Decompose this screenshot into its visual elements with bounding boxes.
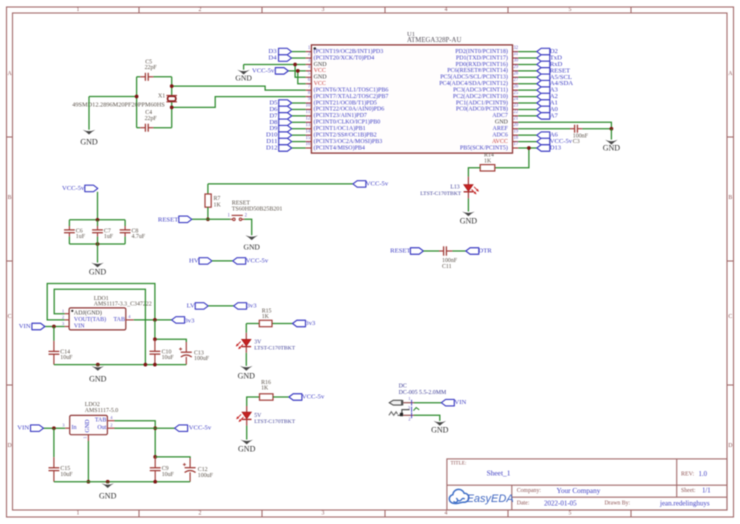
svg-text:PC6(RESET#/PCINT14): PC6(RESET#/PCINT14) — [447, 67, 508, 74]
svg-text:VIN: VIN — [19, 323, 31, 330]
svg-text:(PCINT4/MISO)PB4: (PCINT4/MISO)PB4 — [314, 144, 365, 151]
U1 pin 30 PD0(RXD/PCINT16) stub — [456, 59, 519, 68]
capacitor C11 leads — [439, 250, 444, 252]
svg-text:X1: X1 — [158, 94, 165, 100]
svg-text:VIN: VIN — [17, 425, 29, 432]
capacitor C12 polarized — [183, 463, 196, 473]
wire cap top rail — [69, 219, 125, 221]
svg-text:VCC-5v: VCC-5v — [366, 180, 389, 187]
wire bottom rail to GND — [97, 244, 99, 263]
wire R15 to 3v3 flag — [272, 323, 293, 325]
net port LV — [195, 303, 208, 310]
svg-text:PC4(ADC4/SDA/PCINT12): PC4(ADC4/SDA/PCINT12) — [439, 80, 508, 87]
LED 3V bottom lead — [245, 347, 247, 353]
svg-text:HV: HV — [189, 257, 199, 264]
svg-text:22pF: 22pF — [145, 65, 158, 71]
svg-text:REV:: REV: — [681, 471, 695, 477]
resistor R15 — [259, 320, 272, 326]
svg-text:VCC-5v: VCC-5v — [252, 67, 275, 74]
DC jack pin 1 lead — [403, 402, 414, 404]
net port TxD — [537, 55, 550, 62]
ground below C6-C8 — [89, 263, 107, 277]
U1 pin 6 VCC stub — [306, 78, 326, 87]
svg-text:RESET: RESET — [390, 248, 410, 255]
wire branch to C12 — [155, 457, 190, 458]
wire VIN flag to LDO2 — [44, 427, 66, 429]
junction top rail C7 — [96, 218, 100, 222]
svg-text:GND: GND — [431, 425, 449, 434]
svg-text:27: 27 — [513, 78, 518, 83]
junction D13 to R14 — [527, 146, 531, 150]
svg-text:28: 28 — [513, 72, 518, 77]
DC jack switch contact elbow — [402, 405, 412, 413]
svg-text:B: B — [8, 195, 12, 201]
capacitor C14 — [49, 351, 60, 354]
svg-text:Drawn By:: Drawn By: — [605, 501, 631, 507]
capacitor C4 leads — [140, 127, 145, 129]
net port D5 — [279, 100, 292, 107]
svg-text:12: 12 — [306, 117, 311, 122]
wire VOUT over-the-top loop to TAB net — [47, 284, 155, 320]
net port A3 — [537, 87, 550, 94]
ground LDO1 rail — [89, 366, 107, 383]
wire crystal top rail — [137, 76, 141, 78]
svg-text:DC: DC — [399, 384, 407, 390]
net port VCC-5v beside HV — [233, 258, 246, 265]
svg-text:(PCINT21/OC0B/T1)PD5: (PCINT21/OC0B/T1)PD5 — [314, 99, 377, 106]
junction rail ADJ loop — [144, 363, 148, 367]
capacitor C14 leads — [53, 341, 55, 352]
svg-text:ATMEGA328P-AU: ATMEGA328P-AU — [407, 37, 461, 44]
wire VIN down to C15 — [53, 428, 55, 457]
U1 pin 3 GND stub — [306, 59, 328, 68]
capacitor C13 polarized — [179, 348, 192, 358]
U1 pin 31 PD1(TXD/PCINT17) stub — [456, 52, 519, 61]
net port D7 — [279, 113, 292, 120]
svg-text:13: 13 — [306, 123, 311, 128]
junction crystal top to XTAL1 — [170, 84, 174, 88]
wire U1 to VCC-5v — [518, 141, 537, 143]
svg-text:16: 16 — [306, 142, 311, 147]
svg-text:4: 4 — [445, 511, 448, 517]
svg-text:3v3: 3v3 — [185, 318, 196, 325]
capacitor C15 — [49, 468, 60, 471]
svg-text:1K: 1K — [484, 158, 492, 164]
wire R7 top — [207, 184, 209, 194]
svg-text:GND: GND — [85, 419, 91, 433]
net port A5/SCL — [537, 74, 550, 81]
U1 pin 10 (PCINT22/OC0A/AIN0)PD6 stub — [306, 104, 385, 113]
svg-text:PB5(SCK/PCINT5): PB5(SCK/PCINT5) — [460, 144, 508, 151]
svg-text:GND: GND — [243, 243, 260, 252]
net port A4/SDA — [537, 80, 550, 87]
svg-text:1K: 1K — [262, 314, 270, 320]
wire U1 pin21 GND to junction — [518, 122, 611, 128]
svg-text:A7: A7 — [550, 112, 559, 119]
svg-text:(PCINT23/AIN1)PD7: (PCINT23/AIN1)PD7 — [314, 112, 367, 119]
wire U1 to A2 — [518, 96, 537, 98]
wire GND symbol stem near U1 — [243, 64, 245, 69]
svg-text:D13: D13 — [550, 145, 562, 152]
ground LDO2 rail — [99, 483, 117, 500]
svg-text:1: 1 — [77, 511, 80, 517]
svg-text:100uF: 100uF — [194, 356, 210, 362]
net port VCC-5v — [537, 138, 550, 145]
ground DC jack — [431, 421, 449, 435]
wire D4 to U1 pin 2 — [292, 57, 306, 59]
wire U1 to TxD — [518, 57, 537, 59]
net port VCC-5v right of R7 — [353, 181, 366, 188]
svg-text:B: B — [728, 195, 732, 201]
svg-text:100uF: 100uF — [198, 473, 214, 479]
svg-text:C: C — [8, 314, 12, 320]
svg-text:Out: Out — [97, 425, 106, 431]
svg-text:VOUT(TAB): VOUT(TAB) — [74, 316, 106, 323]
net port VCC-5v above C6-C8 — [85, 185, 98, 192]
net port VCC-5v at U1 — [275, 68, 288, 75]
IC U1 ATMEGA328P-AU body — [311, 45, 512, 153]
U1 pin 17 PB5(SCK/PCINT5) stub — [460, 142, 519, 151]
junction rail C10 — [153, 363, 157, 367]
junction rail C9 — [153, 480, 157, 484]
net port A7 — [537, 113, 550, 120]
capacitor C8 — [120, 230, 131, 233]
svg-text:3: 3 — [322, 511, 325, 517]
svg-text:14: 14 — [306, 129, 311, 134]
wire D8 to U1 — [292, 121, 306, 123]
svg-text:Your Company: Your Company — [557, 487, 601, 495]
svg-text:LTST-C170TBKT: LTST-C170TBKT — [254, 419, 296, 425]
svg-text:VCC-5v: VCC-5v — [302, 394, 325, 401]
wire D6 to U1 — [292, 108, 306, 110]
svg-text:Sheet:: Sheet: — [681, 488, 696, 494]
LED L13 bottom lead — [467, 192, 469, 199]
wire ADJ to GND rail loop — [54, 289, 145, 364]
wire U1 to A6 — [518, 134, 537, 136]
svg-text:VIN: VIN — [454, 399, 466, 406]
LDO1 pin numbers — [62, 308, 131, 326]
net port RESET — [537, 68, 550, 75]
wire U1 to D2 — [518, 51, 537, 53]
svg-text:GND: GND — [235, 74, 252, 83]
svg-text:(PCINT22/OC0A/AIN0)PD6: (PCINT22/OC0A/AIN0)PD6 — [314, 106, 385, 113]
U1 pin 25 PC2(ADC2/PCINT10) stub — [453, 91, 519, 100]
svg-text:TAB: TAB — [95, 418, 107, 424]
net port D2 — [537, 48, 550, 55]
junction crystal bottom to XTAL2 — [170, 106, 174, 110]
capacitor C13 leads — [185, 342, 187, 352]
DC jack center pin contact — [389, 400, 402, 405]
U1 pin 24 PC1(ADC1/PCINT9) stub — [456, 97, 519, 106]
wire U1 to A4/SDA — [518, 83, 537, 85]
LDO2 pin stubs — [65, 421, 114, 441]
svg-text:17: 17 — [513, 142, 518, 147]
svg-text:RESET: RESET — [158, 216, 178, 223]
svg-text:DTR: DTR — [478, 248, 492, 255]
svg-text:10uF: 10uF — [60, 355, 73, 361]
svg-text:D4: D4 — [268, 55, 277, 62]
junction rail GND stem — [96, 363, 100, 367]
wire D11 to U1 — [292, 141, 306, 143]
U1 pin 21 GND stub — [495, 117, 519, 126]
svg-text:AVCC: AVCC — [492, 139, 508, 145]
svg-text:(PCINT19/OC2B/INT1)PD3: (PCINT19/OC2B/INT1)PD3 — [314, 48, 384, 55]
capacitor C7 — [92, 230, 103, 233]
U1 pin 8 (PCINT7/XTAL2/TOSC2)PB7 stub — [306, 91, 389, 100]
net port VIN at LDO2 — [31, 425, 44, 432]
net port VCC-5v right of R16 — [289, 394, 302, 401]
svg-text:Sheet_1: Sheet_1 — [487, 469, 511, 478]
svg-text:L13: L13 — [450, 185, 459, 191]
net port 3v3 beside LV — [234, 303, 247, 310]
svg-text:LTST-C170TBKT: LTST-C170TBKT — [420, 191, 462, 197]
wire U1 to A1 — [518, 102, 537, 104]
wire C10 branch from TAB junction — [154, 320, 156, 339]
LED 3V top lead — [245, 333, 247, 340]
svg-text:10uF: 10uF — [162, 472, 175, 478]
net port D10 — [279, 132, 292, 139]
ground near U1 top — [235, 70, 252, 83]
svg-text:AMS1117-5.0: AMS1117-5.0 — [85, 408, 118, 414]
net port D8 — [279, 119, 292, 126]
wire D12 to U1 — [292, 147, 306, 149]
U1 pin 7 (PCINT6/XTAL1/TOSC1)PB6 stub — [306, 84, 389, 93]
wire U1 to A0 — [518, 108, 537, 110]
svg-text:5: 5 — [569, 7, 572, 13]
capacitor C15 leads — [53, 457, 55, 468]
svg-text:(PCINT6/XTAL1/TOSC1)PB6: (PCINT6/XTAL1/TOSC1)PB6 — [314, 86, 389, 93]
svg-text:LV: LV — [187, 302, 195, 309]
wire XTAL2 from crystal to U1 pin 8 — [172, 97, 306, 108]
capacitor C11 — [444, 246, 447, 255]
wire crystal right rail — [171, 77, 173, 96]
net port RESET left — [179, 216, 192, 223]
wire cap bottom rail — [69, 243, 125, 245]
svg-text:10: 10 — [306, 104, 311, 109]
svg-text:22pF: 22pF — [145, 116, 158, 122]
junction TAB / C10 branch — [153, 318, 157, 322]
svg-text:18: 18 — [513, 136, 518, 141]
wire LDO2 GND pin to rail — [87, 441, 89, 482]
svg-text:PD1(TXD/PCINT17): PD1(TXD/PCINT17) — [456, 54, 508, 61]
svg-text:PC3(ADC3/PCINT11): PC3(ADC3/PCINT11) — [453, 86, 508, 93]
svg-text:LDO2: LDO2 — [85, 402, 100, 408]
svg-text:ADC7: ADC7 — [492, 113, 508, 119]
wire R14 to LED L13 — [468, 168, 480, 177]
net port VIN at LDO1 — [32, 323, 45, 330]
wire Out to VCC-5v flag — [115, 427, 175, 429]
svg-text:VCC: VCC — [314, 68, 326, 74]
svg-text:C3: C3 — [573, 139, 580, 145]
wire HV to VCC-5v — [212, 260, 233, 262]
wire U1 to A5/SCL — [518, 76, 537, 78]
U1 pin 2 (PCINT20/XCK/T0)PD4 stub — [306, 52, 375, 61]
net port A2 — [537, 93, 550, 100]
svg-text:11: 11 — [306, 110, 311, 115]
wire C3 to GND junction — [582, 128, 611, 130]
svg-text:49SMD12.2896M20PF20PPM60HS: 49SMD12.2896M20PF20PPM60HS — [72, 102, 165, 109]
svg-text:1uF: 1uF — [104, 234, 114, 240]
capacitor C4 — [145, 124, 148, 132]
wire D10 to U1 — [292, 134, 306, 136]
net port D11 — [279, 138, 292, 145]
svg-text:LTST-C170TBKT: LTST-C170TBKT — [254, 346, 296, 352]
wire U1 to A7 — [518, 115, 537, 117]
wire branch to C13 — [155, 339, 186, 342]
junction R7 reset net — [206, 217, 210, 221]
junction VIN C15 — [52, 426, 56, 430]
LED 3V LTST-C170TBKT — [236, 339, 251, 349]
net port A0 — [537, 106, 550, 113]
svg-text:1K: 1K — [214, 202, 222, 208]
LDO2 pin numbers — [62, 415, 113, 439]
LED L13 top lead — [467, 177, 469, 185]
junction C3 GND — [610, 127, 614, 131]
wire VCC-5v rail above R7 — [208, 183, 353, 185]
svg-text:3v3: 3v3 — [305, 320, 316, 327]
resistor R16 — [260, 394, 274, 400]
junction rail LDO2 GND pin — [87, 480, 91, 484]
wire 3V LED to GND — [245, 353, 247, 366]
U1 pin 19 ADC6 stub — [492, 129, 519, 138]
capacitor C12 leads — [189, 458, 191, 468]
svg-text:GND: GND — [495, 120, 509, 126]
U1 pin 18 AVCC stub — [492, 136, 519, 145]
svg-text:Date:: Date: — [517, 501, 530, 507]
wire U1 pin20 AREF to C3 — [518, 128, 570, 130]
ground at C3 — [603, 140, 621, 153]
wire 3v3 to R15 — [246, 323, 259, 325]
svg-text:AREF: AREF — [493, 126, 509, 132]
svg-text:VCC-5v: VCC-5v — [246, 257, 269, 264]
svg-text:TAB: TAB — [113, 317, 125, 323]
svg-text:TS60HD50B25B201: TS60HD50B25B201 — [232, 207, 283, 213]
DC jack switch no-connect mark — [413, 408, 419, 411]
wire D7 to U1 — [292, 115, 306, 117]
LED L13 LTST-C170TBKT — [464, 185, 479, 195]
svg-text:GND: GND — [460, 216, 478, 225]
U1 pin 5 GND stub — [306, 72, 328, 81]
svg-text:PD0(RXD/PCINT16): PD0(RXD/PCINT16) — [456, 61, 508, 68]
net port DTR — [466, 248, 479, 255]
wire TAB to 3v3 flag — [134, 319, 172, 321]
junction bottom rail C7 — [96, 242, 100, 246]
wire LV to 3v3 — [208, 305, 233, 307]
svg-text:1K: 1K — [261, 386, 269, 392]
svg-text:5V: 5V — [254, 413, 262, 419]
U1 pin 14 (PCINT2/SS#/OC1B)PB2 stub — [306, 129, 377, 138]
svg-text:GND: GND — [99, 491, 117, 500]
svg-text:22: 22 — [513, 110, 518, 115]
svg-text:PC1(ADC1/PCINT9): PC1(ADC1/PCINT9) — [456, 99, 508, 106]
capacitor C10 leads — [154, 339, 156, 351]
capacitor C6 — [64, 230, 75, 233]
wire stem to AREF GND symbol — [610, 129, 612, 140]
junction TAB Out cross — [153, 426, 157, 430]
svg-text:PC0(ADC0/PCINT8): PC0(ADC0/PCINT8) — [456, 106, 508, 113]
wire VCC-5v to U1 pins 4 and 6 — [288, 70, 305, 72]
U1 pin 15 (PCINT3/OC2A/MOSI)PB3 stub — [306, 136, 383, 145]
pushbutton RESET TS60HD50B25B201 — [228, 214, 248, 221]
svg-text:VCC-5v: VCC-5v — [62, 185, 85, 192]
wire LDO1 ground rail — [54, 364, 186, 366]
svg-text:20: 20 — [513, 123, 518, 128]
net port D13 — [537, 145, 550, 152]
net port RESET at C11 — [410, 248, 423, 255]
wire RESET to C11 — [423, 250, 439, 252]
svg-text:PD2(INT0/PCINT18): PD2(INT0/PCINT18) — [455, 48, 508, 55]
U1 pin 28 PC5(ADC5/SCL/PCINT13) stub — [440, 72, 519, 81]
wire U1 to A3 — [518, 89, 537, 91]
capacitor C3 — [575, 125, 578, 133]
regulator LDO2 AMS1117-5.0 body — [70, 415, 108, 434]
U1 pin 11 (PCINT23/AIN1)PD7 stub — [306, 110, 367, 119]
net port D12 — [279, 145, 292, 152]
capacitor C5 leads — [140, 76, 145, 78]
svg-text:RESET: RESET — [232, 200, 251, 206]
svg-text:VIN: VIN — [74, 324, 85, 330]
net port 3v3 at LDO1 — [172, 317, 185, 324]
wire TAB2 net to C9 — [115, 421, 156, 457]
title block texts — [451, 461, 711, 508]
svg-text:23: 23 — [513, 104, 518, 109]
wire crystal left rail — [136, 77, 138, 128]
svg-text:(PCINT0/CLKO/ICP1)PB0: (PCINT0/CLKO/ICP1)PB0 — [314, 119, 381, 126]
capacitor C6 leads — [68, 220, 70, 226]
net port HV — [199, 258, 212, 265]
capacitor C5 — [145, 73, 148, 81]
capacitor C10 — [150, 351, 161, 354]
svg-text:PC5(ADC5/SCL/PCINT13): PC5(ADC5/SCL/PCINT13) — [440, 74, 508, 81]
wire D3 to U1 pin 1 — [292, 51, 306, 53]
U1 pin 9 (PCINT21/OC0B/T1)PD5 stub — [306, 97, 377, 106]
DC jack sleeve spring contact — [389, 412, 403, 416]
svg-text:R7: R7 — [214, 196, 221, 202]
net port D9 — [279, 125, 292, 132]
U1 pin 1 (PCINT19/OC2B/INT1)PD3 stub — [306, 46, 384, 55]
svg-text:1.0: 1.0 — [699, 471, 708, 478]
capacitor C9 — [150, 468, 161, 471]
svg-text:(PCINT20/XCK/T0)PD4: (PCINT20/XCK/T0)PD4 — [314, 54, 375, 61]
wire crystal bottom rail — [137, 127, 141, 129]
LDO1 pin stubs — [65, 314, 134, 327]
EasyEDA logo — [449, 489, 513, 505]
U1 pin 32 PD2(INT0/PCINT18) stub — [455, 46, 519, 55]
wire U1 to D13 — [518, 147, 537, 149]
svg-text:TITLE:: TITLE: — [451, 461, 467, 467]
svg-text:30: 30 — [513, 59, 518, 64]
svg-text:C: C — [728, 314, 732, 320]
U1 pin 23 PC0(ADC0/PCINT8) stub — [456, 104, 519, 113]
wire R7 bottom to reset net — [207, 207, 209, 219]
net port A6 — [537, 132, 550, 139]
svg-text:GND: GND — [80, 138, 98, 147]
svg-text:3V: 3V — [254, 339, 262, 345]
junction crystal left rail GND — [135, 95, 139, 99]
wire rail to GND symbol — [97, 365, 99, 366]
svg-text:32: 32 — [513, 46, 518, 51]
svg-text:24: 24 — [513, 97, 518, 102]
U1 pin 13 (PCINT1/OC1A)PB1 stub — [306, 123, 366, 132]
title block — [447, 459, 727, 510]
wire DC jack pin1 to VIN flag — [414, 402, 441, 404]
svg-text:1/1: 1/1 — [702, 487, 711, 494]
U1 pin 20 AREF stub — [493, 123, 519, 132]
svg-text:GND: GND — [314, 62, 328, 68]
svg-text:DC-005 5.5-2.0MM: DC-005 5.5-2.0MM — [399, 390, 447, 396]
resistor R7 — [205, 194, 211, 207]
LED 5V LTST-C170TBKT — [236, 412, 251, 422]
